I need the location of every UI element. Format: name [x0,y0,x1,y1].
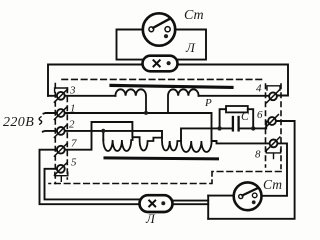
enclosure dashed right outer rail [280,84,282,169]
ballast core [111,85,232,87]
wire T2 dot drop [102,131,104,140]
AC squiggle [39,117,42,124]
starter Ст (top) [143,13,175,45]
inductor ballast winding 1 [115,89,146,112]
junction dot ballast tap [144,111,148,115]
transformer windings [103,137,211,152]
wire starter to T8 [261,143,287,195]
wire resistor left lead [220,109,226,128]
node B [251,126,255,130]
svg-text:1: 1 [70,103,76,115]
wire lamp right junction vertical [207,196,209,219]
wire T1 to transformer right end [65,113,212,141]
wire supply to T1 [44,112,57,115]
terminal 4 [267,86,280,103]
lamp Л (top) [143,56,178,72]
enclosure dashed right inner rail [265,84,267,167]
wire junction to starter [208,195,234,197]
svg-text:Ст: Ст [184,8,204,23]
wire lamp to junction [173,201,209,205]
enclosure dashed left outer rail [54,84,56,184]
svg-text:6: 6 [257,109,263,121]
svg-text:Р: Р [204,97,212,109]
svg-text:2: 2 [69,119,75,131]
svg-text:4: 4 [256,83,262,95]
wire top loop box [48,65,288,96]
resistor Р [226,106,248,112]
terminal 7 [54,143,67,156]
terminal 3 [54,88,67,102]
wire T7 left chain to lamp [40,150,141,205]
node A [217,126,221,130]
capacitor С [220,117,254,130]
svg-text:С: С [241,111,249,123]
starter Ст (bottom) [234,182,262,210]
transformer core [105,158,218,159]
terminal 6 [266,115,279,128]
inductor ballast winding 2 [168,89,199,113]
wire T7 bridge to transformer [65,122,133,150]
wire transformer to T8 [212,141,270,143]
svg-text:Л: Л [145,211,156,226]
wire transformer to RC node [181,128,220,141]
wire supply to T2 [43,130,57,133]
svg-text:220В: 220В [3,115,34,130]
terminal 2 [54,125,67,138]
terminal 5 [54,162,67,181]
wire T5 left chain to lamp [45,169,141,200]
wire T2 to transformer [65,131,162,138]
svg-text:3: 3 [69,85,76,97]
svg-text:5: 5 [71,157,77,169]
wire RC to T6 [253,122,268,129]
wire T3 to ballast [65,95,116,97]
terminal 8 [266,137,280,159]
enclosure dashed bottom [49,172,281,184]
enclosure dashed left inner rail [66,88,68,179]
svg-text:Л: Л [185,40,196,55]
svg-text:8: 8 [255,149,261,161]
wire starter parallel loop [117,30,144,60]
enclosure dashed top [62,78,266,80]
wire resistor right lead [248,109,253,128]
terminal 1 [54,107,67,120]
svg-text:7: 7 [71,138,77,150]
wire ballast to T4 [199,95,269,97]
wire T3 left stub [48,95,57,97]
wire T6 right to bottom right [208,121,294,219]
svg-text:Ст: Ст [263,177,282,192]
junction dot T2 [101,129,105,133]
lamp Л (bottom) [140,195,173,212]
